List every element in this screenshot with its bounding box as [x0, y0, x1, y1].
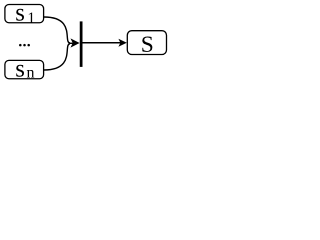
- svg-text:n: n: [27, 65, 35, 82]
- svg-text:s: s: [15, 55, 25, 82]
- svg-text:s: s: [15, 0, 25, 27]
- svg-text:S: S: [141, 32, 154, 58]
- svg-text:1: 1: [27, 10, 35, 27]
